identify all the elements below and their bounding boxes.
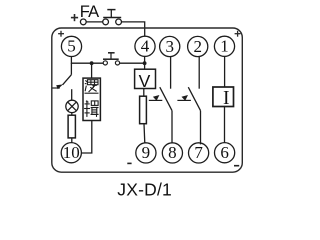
indicator lamp	[66, 100, 78, 112]
contact K3 bottom lead (to terminal 7)	[200, 111, 202, 145]
contact K3 actuation arrow	[177, 99, 191, 101]
contact K3 top lead (from terminal 2)	[198, 56, 200, 88]
contact K1 actuation arrow	[52, 87, 59, 89]
plus polarity label at FA supply	[71, 14, 78, 21]
wire lamp to resistor R2	[71, 113, 73, 116]
wire junction to voltmeter	[144, 63, 146, 69]
open terminal of FA branch	[80, 19, 86, 25]
plus label at terminal 1	[235, 31, 241, 37]
contact K1 top lead	[70, 63, 72, 75]
svg-text:V: V	[139, 71, 151, 91]
wire resistor R2 to terminal 10	[71, 138, 73, 143]
svg-text:6: 6	[220, 143, 229, 162]
resistor R1	[140, 96, 147, 124]
logic box	[83, 78, 100, 120]
logic glyph JI (bottom character)	[84, 101, 99, 117]
terminal 4	[135, 36, 155, 56]
svg-text:5: 5	[67, 37, 76, 56]
voltmeter box V	[135, 69, 156, 88]
minus label at terminal 9	[127, 162, 131, 164]
terminal 5	[61, 36, 81, 56]
wire logic box to terminal 10	[82, 121, 92, 153]
wire FA terminal to pushbutton	[86, 21, 103, 23]
svg-text:4: 4	[141, 37, 150, 56]
contact K2 blade	[160, 87, 172, 110]
junction dot logic tap	[90, 61, 94, 65]
svg-text:I: I	[223, 88, 230, 109]
wire terminal 4 down to junction	[144, 56, 146, 64]
terminal 9	[136, 143, 156, 163]
resistor R2	[68, 115, 75, 138]
wire resistor R1 to terminal 9	[143, 124, 146, 144]
terminal 10	[61, 143, 81, 163]
wire voltmeter to resistor R1	[143, 89, 145, 97]
wire ammeter to terminal 6	[224, 107, 226, 143]
bus wire right segment	[120, 62, 145, 64]
svg-text:3: 3	[165, 37, 174, 56]
wire terminal 5 to bus	[70, 56, 72, 64]
terminal 1	[214, 36, 234, 56]
contact K3 blade	[188, 87, 200, 110]
contact K1 bottom lead	[71, 89, 73, 100]
bus wire left segment	[71, 62, 103, 64]
svg-text:FA: FA	[80, 3, 99, 21]
junction dot V branch	[143, 61, 147, 65]
wire terminal 1 to ammeter	[224, 56, 226, 87]
contact K1 blade	[63, 75, 72, 85]
wire bus to logic box	[91, 63, 93, 78]
terminal 2	[188, 36, 208, 56]
inner pushbutton (normally-open)	[103, 53, 120, 65]
contact K2 actuation arrow	[149, 99, 163, 101]
svg-text:1: 1	[220, 37, 229, 56]
svg-text:2: 2	[193, 37, 202, 56]
terminal 3	[160, 36, 180, 56]
svg-text:9: 9	[142, 143, 151, 162]
terminal 8	[162, 143, 182, 163]
logic glyph LUO (top character)	[85, 80, 99, 94]
plus label at terminal 5	[58, 31, 64, 37]
terminal 7	[189, 143, 209, 163]
contact K2 top lead (from terminal 3)	[170, 56, 172, 88]
contact K2 bottom lead (to terminal 8)	[171, 111, 173, 143]
svg-text:7: 7	[194, 143, 203, 162]
wire pushbutton to terminal 4	[121, 22, 144, 37]
ammeter box I	[213, 87, 234, 107]
svg-text:10: 10	[63, 143, 80, 162]
minus label at terminal 6	[234, 165, 239, 167]
svg-text:JX-D/1: JX-D/1	[117, 179, 172, 199]
svg-text:8: 8	[168, 143, 177, 162]
terminal 6	[215, 143, 235, 163]
pushbutton FA (normally-open)	[103, 10, 122, 25]
relay case outline	[52, 28, 243, 172]
